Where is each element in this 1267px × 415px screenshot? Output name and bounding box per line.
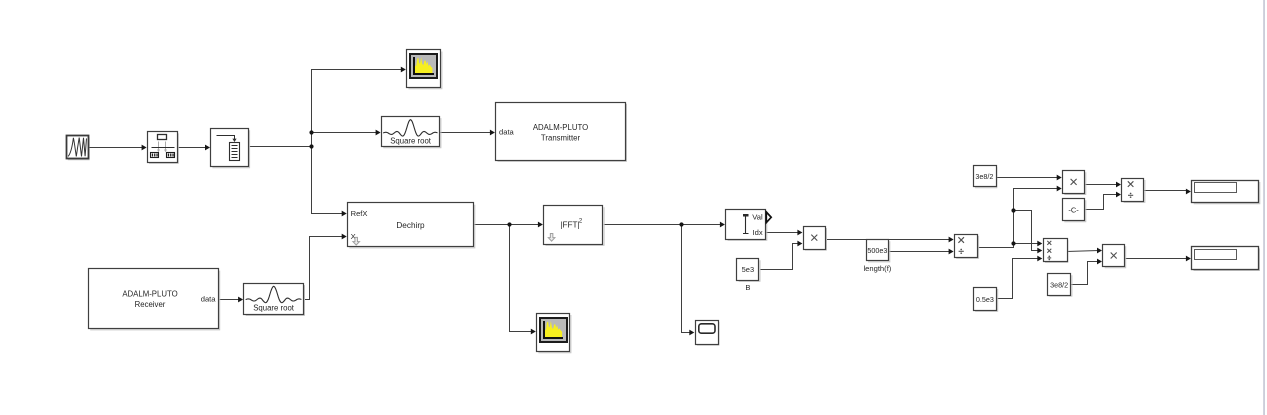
svg-text:Idx: Idx: [753, 228, 763, 237]
wire: product to divide (top input): [826, 239, 950, 241]
arrowhead: [376, 130, 381, 136]
wire: FFT output to Max block: [604, 224, 722, 226]
arrowhead: [142, 145, 147, 151]
svg-text:-C-: -C-: [1068, 205, 1079, 214]
arrowhead: [1097, 259, 1102, 265]
wire: constant B 5e3 to product: [760, 244, 799, 270]
block: spectrum analyzer (bottom): [537, 314, 572, 354]
svg-text:3e8/2: 3e8/2: [1050, 280, 1068, 289]
arrowhead: [490, 130, 495, 136]
block: maximum (Val/Idx): [726, 210, 768, 241]
canvas right edge line: [1263, 0, 1265, 415]
block: magnitude FFT squared: [544, 206, 605, 246]
arrowhead: [1037, 248, 1042, 254]
junction: trunk at square-root branch: [309, 130, 313, 134]
arrowhead: [342, 234, 347, 240]
svg-text:data: data: [201, 295, 217, 304]
arrowhead: [1186, 256, 1191, 262]
block: constant 3e8/2 (top): [974, 166, 998, 189]
block: chirp signal source: [67, 136, 90, 161]
arrowhead: [1097, 248, 1102, 254]
wire: Max Idx to product: [766, 232, 799, 234]
svg-text:B: B: [745, 283, 750, 292]
arrowhead: [238, 297, 243, 303]
svg-text:0.5e3: 0.5e3: [976, 295, 994, 304]
arrowhead: [1116, 182, 1121, 188]
block: Dechirp: [348, 203, 476, 249]
junction: divide output wire: [1011, 241, 1015, 245]
wire: square root (bottom) up to Dechirp X: [304, 237, 344, 300]
svg-text:data: data: [499, 128, 515, 137]
wire: branch to square root (top): [312, 132, 378, 134]
wire: frame block to queue block: [178, 147, 207, 149]
block: queue block: [211, 129, 251, 169]
wire: three-input product to bottom-right product: [1067, 251, 1099, 252]
svg-text:Val: Val: [752, 213, 763, 222]
arrowhead: [1057, 175, 1062, 181]
block: constant 5e3: [737, 259, 761, 282]
unconnected output port arrow at Val: [766, 212, 771, 223]
arrowhead: [949, 249, 954, 255]
junction: FFT-Max wire: [679, 222, 683, 226]
block: ADALM-PLUTO Transmitter: [496, 103, 628, 162]
wire: trunk up to top spectrum analyzer: [312, 70, 403, 147]
svg-text:Square root: Square root: [253, 304, 295, 313]
arrowhead: [689, 330, 694, 336]
arrowhead: [949, 237, 954, 243]
block: constant 3e8/2 (bottom): [1048, 274, 1073, 297]
block: samples-to-frame block: [148, 132, 179, 164]
arrowhead: [1037, 241, 1042, 247]
wire: constant 3e8/2 (top) to product: [996, 177, 1059, 179]
svg-text:RefX: RefX: [351, 209, 368, 218]
wire: bottom-right product to bottom display: [1125, 258, 1188, 260]
block: display (bottom): [1192, 247, 1261, 272]
arrowhead: [538, 222, 543, 228]
svg-text:ADALM-PLUTO: ADALM-PLUTO: [533, 123, 588, 132]
arrowhead: [205, 145, 210, 151]
arrowhead: [531, 329, 536, 335]
block: divide (x over /): [955, 235, 980, 259]
wire: constant -C- to top divide block: [1085, 195, 1118, 210]
wire: branch up to top product second input: [1014, 189, 1059, 244]
wire: branch to three-input product middle input: [1014, 211, 1039, 251]
junction: vertical branch upper: [1011, 208, 1015, 212]
block: display (top): [1192, 181, 1261, 205]
svg-text:3e8/2: 3e8/2: [975, 172, 993, 181]
arrowhead: [1116, 192, 1121, 198]
arrowhead: [797, 241, 802, 247]
block: product (Idx x B): [804, 227, 828, 251]
svg-text:Transmitter: Transmitter: [541, 133, 581, 142]
block: three-input product-divide: [1044, 239, 1069, 263]
svg-text:Dechirp: Dechirp: [396, 221, 425, 230]
wire: receiver data to square root (bottom): [219, 299, 240, 301]
wire: Dechirp output to FFT: [474, 224, 540, 226]
wire: square root (top) to transmitter data: [440, 132, 492, 134]
block: square root raised cosine filter (bottom): [244, 284, 306, 316]
arrowhead: [1186, 189, 1191, 195]
wire: chirp source to frame block: [89, 147, 144, 149]
wire: trunk down to Dechirp RefX: [312, 147, 344, 214]
wire: constant length(f) 500e3 to divide: [889, 251, 950, 253]
svg-text:5e3: 5e3: [742, 265, 755, 274]
block: ADALM-PLUTO Receiver: [89, 269, 221, 331]
junction: trunk at main wire: [309, 144, 313, 148]
arrowhead: [797, 230, 802, 236]
arrowhead: [1057, 186, 1062, 192]
wire: top product to top divide block: [1085, 184, 1118, 186]
arrowhead: [401, 67, 406, 73]
block: spectrum analyzer (top): [407, 50, 443, 90]
wire: constant 0.5e3 to three-input product divide input: [997, 259, 1039, 299]
block: square root raised cosine filter (top): [382, 117, 442, 149]
wire: branch down to scope: [682, 225, 691, 333]
block: product (range numerator): [1063, 171, 1087, 196]
svg-text:Square root: Square root: [390, 136, 432, 145]
block: constant 500e3: [867, 240, 891, 263]
block: constant 0.5e3: [974, 288, 999, 312]
svg-text:Receiver: Receiver: [135, 300, 166, 309]
wire: top divide to top display: [1144, 190, 1188, 192]
svg-text:ADALM-PLUTO: ADALM-PLUTO: [122, 289, 177, 298]
arrowhead: [1037, 256, 1042, 262]
block: product (velocity): [1103, 245, 1127, 269]
block: constant -C-: [1063, 199, 1087, 223]
arrowhead: [720, 222, 725, 228]
svg-text:|FFT|: |FFT|: [560, 221, 579, 230]
block: scope: [696, 321, 720, 346]
svg-text:length(f): length(f): [863, 264, 891, 273]
wire: divide output to three-input product: [978, 244, 1039, 248]
wire: queue block to trunk junction: [249, 146, 312, 148]
svg-text:500e3: 500e3: [867, 246, 887, 255]
wire: constant 3e8/2 (bottom) to bottom-right product: [1071, 262, 1099, 285]
wire: branch down to bottom spectrum analyzer: [510, 225, 533, 332]
arrowhead: [342, 211, 347, 217]
block: divide (range): [1122, 179, 1146, 203]
junction: Dechirp-FFT wire: [507, 222, 511, 226]
